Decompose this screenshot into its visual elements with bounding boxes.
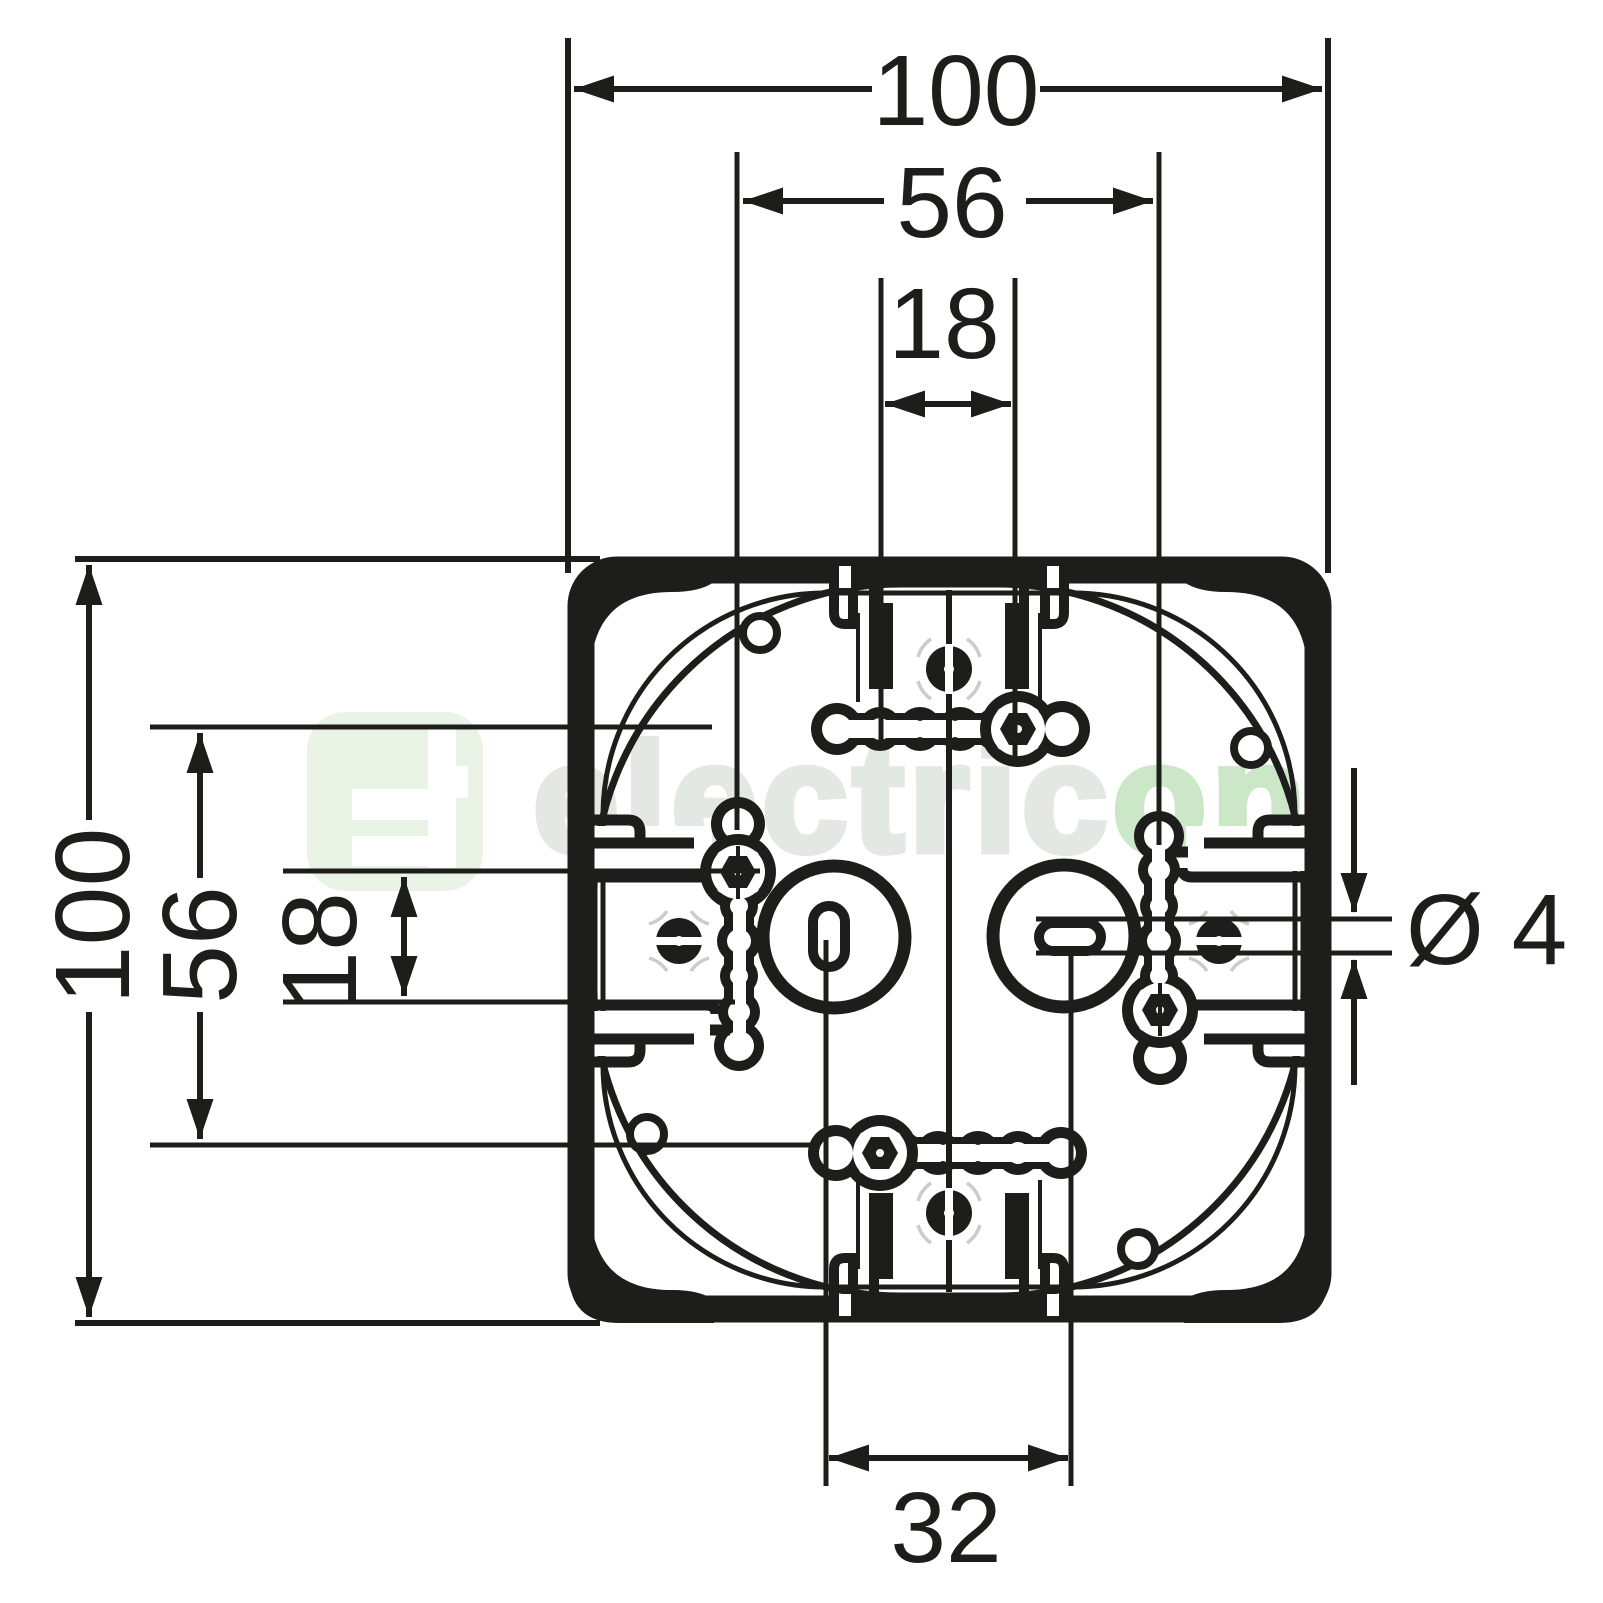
pocket UR	[1186, 826, 1314, 871]
dimension 18 top	[879, 278, 884, 740]
svg-text:18: 18	[261, 892, 379, 1010]
dimension 32 bottom	[824, 940, 829, 1486]
screw top	[918, 639, 980, 699]
slot left	[711, 797, 765, 851]
device circle right	[993, 865, 1135, 1007]
watermark logo	[307, 712, 483, 891]
dimension 100 left	[75, 556, 600, 562]
svg-text:Ø 4: Ø 4	[1406, 874, 1567, 986]
dimension 56 top	[735, 152, 740, 830]
corner mount TL	[569, 559, 714, 714]
centerline vertical	[946, 590, 952, 644]
slot top	[837, 713, 995, 745]
tab top-right	[1045, 582, 1064, 624]
dimension dia 4 right	[1036, 917, 1392, 922]
screw left	[649, 911, 709, 971]
dimension 18 left	[283, 869, 760, 874]
corner hole TR	[1234, 731, 1268, 765]
box wall	[581, 570, 1318, 1309]
screw boss top	[980, 691, 1056, 767]
svg-text:100: 100	[873, 35, 1040, 147]
pocket UL	[584, 826, 712, 871]
dimension 56 left	[150, 725, 712, 730]
svg-text:32: 32	[890, 1472, 1001, 1584]
dimension 100 top	[565, 38, 571, 573]
corner hole TL	[743, 616, 777, 650]
body inner outline	[603, 593, 1295, 1287]
corner mount TR	[1184, 559, 1329, 714]
tab top-left	[834, 582, 853, 624]
svg-text:18: 18	[888, 268, 999, 380]
svg-text:56: 56	[896, 147, 1007, 259]
device circle left	[763, 866, 905, 1008]
body outline	[594, 584, 1304, 1296]
svg-text:56: 56	[141, 886, 259, 1004]
rotated half	[569, 811, 1329, 1323]
svg-text:100: 100	[34, 828, 152, 1005]
wall notches	[839, 566, 1059, 588]
slot oval left	[813, 906, 845, 967]
slot oval right	[1039, 923, 1101, 951]
